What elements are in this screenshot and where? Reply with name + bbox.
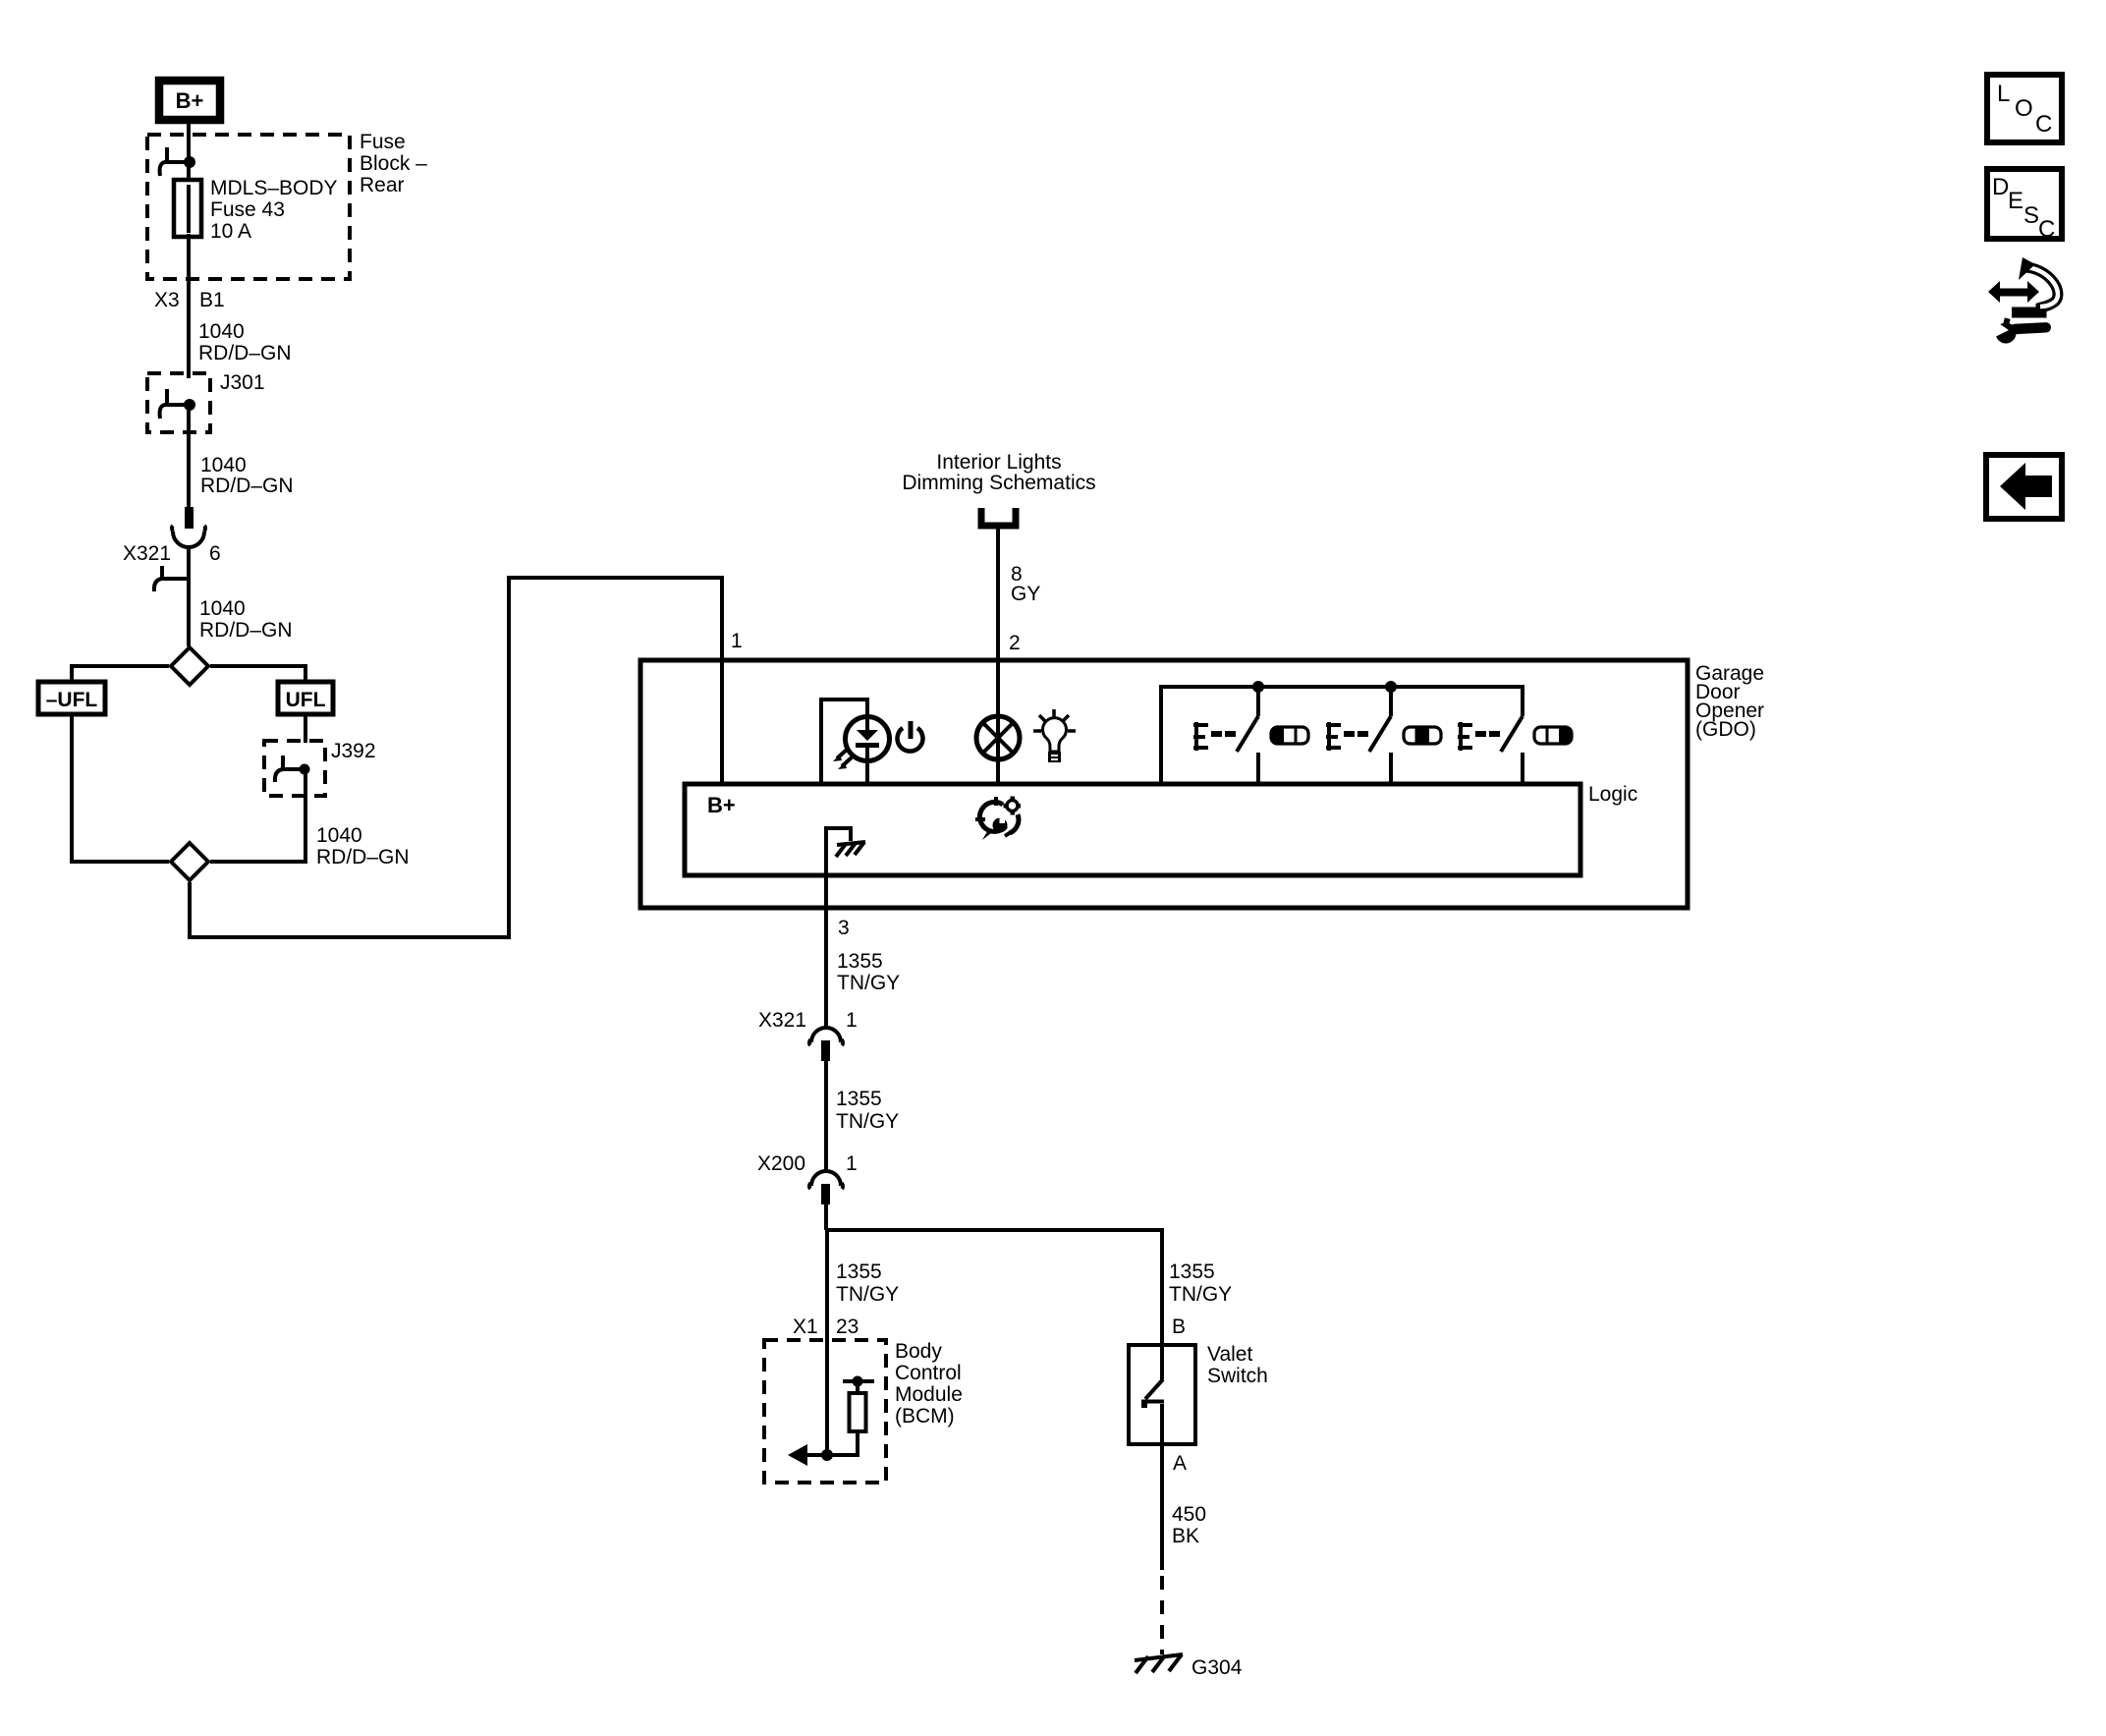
wire X321-1 to X200 <box>824 1061 828 1172</box>
Body Control Module dashed box <box>764 1340 886 1483</box>
J301 clip <box>160 389 195 419</box>
svg-text:Block –: Block – <box>360 152 427 175</box>
svg-text:10 A: 10 A <box>210 220 251 243</box>
fuse MDLS-BODY Fuse 43 10 A <box>174 162 201 240</box>
wire GDO pin 3 down <box>824 875 828 1029</box>
svg-text:1040: 1040 <box>316 824 362 847</box>
svg-text:(BCM): (BCM) <box>895 1405 955 1428</box>
wire label 1355 TN/GY (2) <box>836 1088 899 1133</box>
Logic box <box>685 784 1580 875</box>
wire label 450 BK <box>1172 1503 1206 1547</box>
svg-text:GY: GY <box>1011 583 1040 605</box>
splice J392 dashed box <box>264 741 325 796</box>
svg-text:1: 1 <box>731 630 743 652</box>
fuse value label <box>210 177 338 243</box>
Valet Switch label <box>1207 1343 1268 1387</box>
svg-text:Switch: Switch <box>1207 1365 1268 1387</box>
svg-text:X321: X321 <box>758 1009 806 1032</box>
svg-text:RD/D–GN: RD/D–GN <box>316 846 410 868</box>
back arrow nav box <box>1986 455 2062 519</box>
valet switch blade <box>1141 1379 1164 1446</box>
schematic navigation icon <box>1988 257 2058 312</box>
svg-text:A: A <box>1173 1452 1187 1475</box>
svg-text:1355: 1355 <box>1169 1260 1215 1283</box>
GDO label <box>1695 662 1764 741</box>
svg-text:UFL: UFL <box>286 689 326 711</box>
battery icon 2 <box>1404 727 1441 744</box>
pin labels X1 23 <box>793 1316 859 1338</box>
wire UFL to J392 <box>304 714 307 743</box>
fusible link -UFL box <box>38 682 105 714</box>
splice J301 dashed box <box>147 373 210 432</box>
svg-text:(GDO): (GDO) <box>1695 718 1756 741</box>
svg-text:1040: 1040 <box>199 597 246 620</box>
BCM internal resistor <box>827 1376 874 1456</box>
wire label 1355 TN/GY (1) <box>837 950 900 994</box>
splice diamond lower <box>171 843 208 880</box>
wire splice to UFL <box>210 666 305 680</box>
svg-text:3: 3 <box>838 917 850 939</box>
svg-text:23: 23 <box>836 1316 859 1338</box>
LOC nav box <box>1987 75 2062 142</box>
svg-text:S: S <box>2023 202 2039 229</box>
fusible link UFL box <box>278 682 333 714</box>
connector X321 pin 6 <box>172 507 205 547</box>
svg-text:E: E <box>2008 188 2023 214</box>
wire X321 to splice <box>187 547 191 646</box>
svg-text:C: C <box>2038 216 2055 243</box>
svg-text:D: D <box>1992 174 2009 200</box>
connector X200 pin 1 <box>809 1171 843 1204</box>
switch 3 <box>1501 716 1523 784</box>
svg-text:1040: 1040 <box>200 454 247 476</box>
X321 pigtail clip <box>154 566 188 591</box>
LED light arrows <box>833 750 852 769</box>
svg-text:B1: B1 <box>199 289 225 311</box>
Fuse Block - Rear label <box>360 131 427 196</box>
svg-text:TN/GY: TN/GY <box>836 1110 899 1133</box>
svg-text:J392: J392 <box>331 740 376 762</box>
svg-text:Fuse: Fuse <box>360 131 406 153</box>
wire junction to BCM <box>825 1230 829 1455</box>
pin labels X3 B1 <box>154 289 225 311</box>
svg-text:BK: BK <box>1172 1525 1199 1547</box>
svg-text:Valet: Valet <box>1207 1343 1252 1366</box>
Garage Door Opener GDO outer box <box>640 660 1688 908</box>
wire valet switch to ground <box>1160 1446 1164 1570</box>
connector X321 pin 1 <box>809 1028 843 1061</box>
svg-text:Rear: Rear <box>360 174 405 196</box>
wire label 8 GY <box>1011 563 1040 605</box>
wire fuse to J301 <box>187 234 191 378</box>
BCM internal signal arrow <box>788 1444 833 1466</box>
switch 2 <box>1369 687 1391 784</box>
svg-text:Fuse 43: Fuse 43 <box>210 198 285 221</box>
svg-text:X200: X200 <box>757 1152 805 1175</box>
svg-text:G304: G304 <box>1192 1656 1243 1679</box>
svg-text:TN/GY: TN/GY <box>837 972 900 994</box>
svg-text:B+: B+ <box>176 88 204 113</box>
svg-text:TN/GY: TN/GY <box>836 1283 899 1306</box>
svg-text:Interior Lights: Interior Lights <box>936 451 1061 474</box>
switch bus bar <box>1161 687 1523 784</box>
battery icon 3 <box>1534 727 1572 744</box>
svg-text:1040: 1040 <box>198 320 245 343</box>
wire lower splice to GDO pin 1 <box>190 578 722 937</box>
switch 1 E actuator <box>1193 722 1236 751</box>
svg-text:–UFL: –UFL <box>46 689 98 711</box>
svg-text:2: 2 <box>1009 632 1021 654</box>
svg-text:RD/D–GN: RD/D–GN <box>199 619 293 642</box>
bulb icon <box>1033 709 1076 762</box>
wire J392 down to lower splice <box>210 769 305 862</box>
wire label 1040 RD/D-GN (3) <box>199 597 293 642</box>
svg-text:Body: Body <box>895 1340 942 1363</box>
svg-text:6: 6 <box>209 542 221 565</box>
svg-text:B: B <box>1172 1316 1186 1338</box>
LED indicator circle <box>846 716 890 784</box>
battery icon 1 <box>1271 727 1308 744</box>
svg-text:Control: Control <box>895 1362 962 1384</box>
wire -UFL down to lower splice <box>72 714 169 862</box>
svg-text:RD/D–GN: RD/D–GN <box>200 475 294 497</box>
wire to GDO pin 2 <box>996 529 1000 784</box>
ground branch inside GDO <box>826 828 851 875</box>
ground G304 symbol <box>1135 1654 1183 1673</box>
svg-text:RD/D–GN: RD/D–GN <box>198 342 292 364</box>
BCM label <box>895 1340 963 1428</box>
svg-text:X321: X321 <box>123 542 171 565</box>
svg-text:Logic: Logic <box>1588 783 1637 806</box>
Valet Switch box <box>1129 1345 1195 1444</box>
svg-text:B+: B+ <box>707 793 736 817</box>
DESC nav box <box>1987 169 2062 243</box>
svg-text:1: 1 <box>846 1009 858 1032</box>
wire J301 to X321 <box>187 405 191 509</box>
switch 1 <box>1237 687 1258 784</box>
wire label 1040 RD/D-GN (4) <box>316 824 410 868</box>
wire X200 to junction and valet switch <box>826 1204 1162 1379</box>
svg-text:MDLS–BODY: MDLS–BODY <box>210 177 338 199</box>
svg-text:Module: Module <box>895 1383 963 1406</box>
power symbol icon <box>897 721 922 752</box>
wire label 1040 RD/D-GN (1) <box>198 320 292 364</box>
svg-text:TN/GY: TN/GY <box>1169 1283 1232 1306</box>
power feed B+ box <box>159 81 220 120</box>
wire label 1355 TN/GY (4) <box>1169 1260 1232 1306</box>
svg-text:1: 1 <box>846 1152 858 1175</box>
wire label 1355 TN/GY (3) <box>836 1260 899 1306</box>
bus junction dots <box>1252 681 1264 693</box>
svg-text:C: C <box>2035 111 2052 138</box>
wire splice to -UFL <box>72 666 169 680</box>
fuse block terminal clip <box>160 147 195 176</box>
off-page connector bracket <box>981 508 1016 526</box>
Fuse Block - Rear dashed box <box>147 135 350 279</box>
wire label 1040 RD/D-GN (2) <box>200 454 294 497</box>
svg-text:X3: X3 <box>154 289 180 311</box>
dashed ground lead <box>1160 1576 1164 1654</box>
switch 2 E actuator <box>1326 722 1368 751</box>
motor trainer icon <box>975 797 1021 841</box>
Interior Lights Dimming Schematics label <box>902 451 1095 494</box>
internal chassis ground symbol <box>836 842 865 857</box>
svg-text:L: L <box>1997 81 2010 107</box>
J392 clip <box>275 756 310 782</box>
lamp symbol <box>976 716 1020 759</box>
svg-text:1355: 1355 <box>836 1260 882 1283</box>
svg-text:450: 450 <box>1172 1503 1206 1526</box>
svg-text:1355: 1355 <box>836 1088 882 1110</box>
svg-text:J301: J301 <box>220 371 265 394</box>
svg-text:O: O <box>2015 95 2033 122</box>
wire B+ to fuse <box>187 120 191 180</box>
svg-text:1355: 1355 <box>837 950 883 973</box>
svg-text:X1: X1 <box>793 1316 818 1338</box>
wrench icon <box>1993 317 2051 343</box>
svg-text:Dimming Schematics: Dimming Schematics <box>902 472 1095 494</box>
splice diamond upper <box>171 647 208 685</box>
LED branch wire <box>821 700 867 784</box>
switch 3 E actuator <box>1458 722 1500 751</box>
